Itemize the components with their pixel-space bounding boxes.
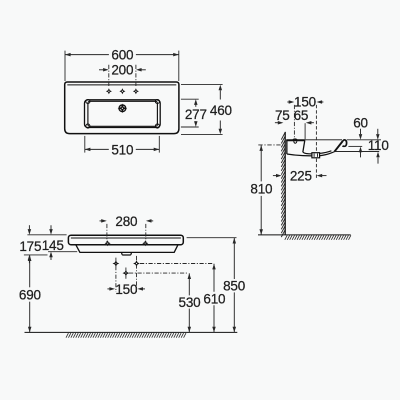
- svg-text:60: 60: [353, 116, 368, 131]
- fixing holes centerline to 610 (dash-dot): [140, 263, 212, 265]
- dim 460: [219, 90, 221, 99]
- svg-text:175: 175: [19, 239, 41, 254]
- dim 600 extension lines: [64, 51, 66, 81]
- drain pipe line (dashed): [315, 159, 317, 178]
- side view: basin back edge: [286, 140, 288, 154]
- side view: front lip: [335, 141, 343, 152]
- faucet centerline (dash-dot): [293, 105, 295, 139]
- dim 225: [273, 175, 277, 177]
- dim 175 bottom extension line: [24, 254, 48, 256]
- dim 510 extension lines: [84, 136, 86, 153]
- dim 75 arrow: [275, 122, 279, 124]
- ext line 65: [304, 123, 306, 139]
- dim 145 bottom extension line: [48, 251, 77, 253]
- dim 200 extension lines (dash-dot): [108, 65, 110, 88]
- svg-text:460: 460: [210, 103, 232, 118]
- svg-text:600: 600: [111, 47, 133, 62]
- side view: bowl exterior rising to front: [320, 152, 335, 156]
- fixing hole marks: [113, 260, 120, 267]
- svg-text:280: 280: [115, 214, 137, 229]
- dim 530: [188, 273, 190, 295]
- svg-text:75: 75: [275, 108, 290, 123]
- side view: faucet hole bump: [293, 139, 297, 140]
- svg-text:225: 225: [290, 168, 312, 183]
- dim 150 front (outside arrows): [107, 288, 111, 290]
- svg-text:110: 110: [368, 138, 389, 153]
- top view: bowl inner rim: [88, 101, 157, 126]
- svg-text:510: 510: [111, 142, 133, 157]
- side view: rim top line to lip: [305, 139, 342, 141]
- svg-text:150: 150: [115, 282, 137, 297]
- dim 690: [29, 255, 31, 287]
- side view: floor hatch: [285, 235, 351, 240]
- drain vertical centerline stub: [125, 268, 127, 279]
- drain mark front view: [123, 270, 130, 277]
- dim 175: [28, 225, 30, 229]
- side view: bowl interior rising to front: [320, 151, 332, 154]
- dim 175/145 top extension line: [27, 234, 66, 236]
- svg-text:810: 810: [250, 181, 272, 196]
- fixing holes vertical centerlines (dash-dot): [115, 258, 117, 292]
- svg-text:690: 690: [19, 287, 41, 302]
- svg-text:145: 145: [42, 238, 64, 253]
- front view: rim inner line: [71, 237, 181, 239]
- dim 200 (outside arrows): [99, 69, 103, 71]
- dim 277 extension lines: [181, 98, 199, 100]
- drain centerline (dashed): [315, 105, 317, 152]
- top view: bowl outer rim: [85, 100, 161, 128]
- top view: bowl corner circles: [86, 99, 90, 103]
- dim 510: [85, 148, 109, 150]
- side view: floor line: [258, 234, 351, 236]
- dim 600: [65, 54, 109, 56]
- dim 150 side: [287, 101, 290, 103]
- dim 810: [260, 145, 262, 181]
- dim 65 arrow: [310, 122, 314, 124]
- svg-text:850: 850: [223, 279, 245, 294]
- ext line C (110 below): [335, 151, 379, 153]
- top view: faucet hole marks: [106, 88, 112, 94]
- side view: drain trap box: [312, 153, 320, 158]
- front view: floor line: [25, 331, 238, 333]
- side view: basin underside: [287, 154, 312, 156]
- side view: basin top surface (thick): [286, 139, 305, 141]
- svg-text:277: 277: [185, 107, 207, 122]
- dim 277: [195, 104, 197, 107]
- side view: wall line: [284, 132, 286, 235]
- front view: mounting hole marks on rim: [105, 240, 111, 246]
- svg-text:200: 200: [111, 62, 133, 77]
- top view: back edge inner line: [67, 84, 176, 86]
- svg-text:530: 530: [179, 295, 201, 310]
- front view: drain bump: [121, 252, 131, 255]
- svg-text:610: 610: [203, 291, 225, 306]
- svg-text:65: 65: [294, 108, 309, 123]
- dim 850 top extension line: [187, 237, 237, 239]
- dim 280 extension lines (dash-dot): [106, 224, 108, 247]
- dim 145: [50, 225, 52, 229]
- front view: rim band outline: [68, 235, 183, 245]
- top view: basin outline: [65, 82, 179, 134]
- dim 810 extension line (dash-dot): [258, 144, 281, 146]
- dim 460 extension lines: [181, 84, 223, 86]
- ext line B (60 below): [348, 145, 362, 147]
- front view: floor hatch: [66, 333, 186, 338]
- side view: bowl interior back wall: [303, 140, 312, 154]
- ext line A top surface: [347, 139, 381, 141]
- dim 610: [213, 264, 215, 292]
- top view: drain symbol: [119, 105, 126, 112]
- side view: wall hatch: [281, 132, 285, 237]
- dim 850: [233, 238, 235, 279]
- drain centerline to 530 (dash-dot): [129, 272, 188, 274]
- front view: bowl apron: [76, 245, 178, 252]
- dim 280 (outside arrows): [100, 220, 104, 222]
